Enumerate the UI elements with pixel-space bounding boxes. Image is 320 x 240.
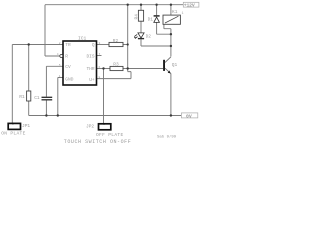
LED D2	[135, 33, 145, 39]
wire collector node	[170, 34, 172, 56]
node dot LED-collector	[170, 45, 172, 47]
transistor Q1	[163, 57, 177, 74]
svg-text:D1: D1	[148, 16, 154, 22]
node dot TR-R1	[28, 43, 30, 45]
svg-text:GND: GND	[65, 77, 73, 83]
wire R1 top	[28, 45, 30, 92]
node dot rail-R4	[140, 3, 142, 5]
svg-text:IC1: IC1	[78, 36, 87, 42]
wire base from node B	[128, 68, 163, 70]
wire LED bottom	[141, 39, 171, 46]
wire emitter to ground	[170, 74, 172, 116]
node dot gnd-emitter	[170, 114, 172, 116]
svg-text:DIS: DIS	[86, 53, 94, 59]
wire relay top pin	[170, 5, 172, 15]
svg-text:Q1: Q1	[172, 62, 178, 68]
svg-text:ON PLATE: ON PLATE	[1, 130, 25, 136]
svg-text:7: 7	[99, 53, 101, 56]
svg-text:OFF PLATE: OFF PLATE	[96, 132, 124, 138]
wire C1 bottom	[45, 100, 47, 115]
supply tag +12V	[183, 2, 199, 8]
svg-text:6: 6	[99, 66, 101, 69]
svg-text:2: 2	[59, 42, 61, 45]
node dot rail-D1	[155, 3, 157, 5]
svg-text:D2: D2	[146, 33, 152, 39]
relay K1 coil	[163, 15, 180, 24]
svg-text:+12V: +12V	[184, 2, 195, 8]
wire GND pin1	[58, 78, 63, 116]
wire relay bottom pin	[164, 24, 171, 34]
node dot R2-feed	[127, 43, 129, 45]
svg-text:4: 4	[57, 53, 59, 56]
wire U+ pin8 jog	[97, 69, 132, 79]
connector JP2	[86, 123, 111, 130]
node dot rail-relay	[170, 3, 172, 5]
svg-text:1: 1	[59, 75, 61, 78]
svg-text:TOUCH SWITCH ON-OFF: TOUCH SWITCH ON-OFF	[64, 139, 131, 145]
svg-text:R4: R4	[133, 14, 139, 20]
resistor R1	[27, 91, 31, 101]
resistor R4	[138, 10, 143, 21]
svg-text:R1: R1	[19, 94, 25, 100]
wire R3 right	[123, 68, 128, 70]
svg-text:R2: R2	[113, 38, 119, 44]
wire CV pin5	[46, 66, 63, 97]
node dot gnd-IC	[57, 114, 59, 116]
pin DIS stub	[97, 55, 102, 57]
wire D1 column	[157, 5, 171, 35]
resistor R2	[109, 42, 123, 46]
wire Q pin3 row	[97, 44, 110, 46]
svg-text:3: 3	[99, 42, 101, 45]
connector JP1	[8, 123, 30, 129]
svg-text:Sab 9/99: Sab 9/99	[157, 135, 177, 140]
svg-text:JP1: JP1	[22, 123, 30, 129]
svg-text:1: 1	[182, 11, 184, 15]
node B base-feed	[127, 67, 129, 69]
svg-text:R: R	[65, 53, 68, 59]
wire ground rail	[29, 115, 182, 117]
wire +12V vertical feed	[127, 5, 129, 69]
wire +12V top rail	[45, 4, 183, 6]
node dot D1-collector	[170, 33, 172, 35]
resistor R3	[110, 66, 123, 70]
node dot gnd-C1	[45, 114, 47, 116]
op-amp U1 : IC1 555 box	[63, 41, 97, 85]
svg-text:TR: TR	[65, 42, 71, 48]
capacitor C1	[42, 97, 53, 100]
diode D1	[154, 16, 160, 23]
wire TR pin2 row	[12, 44, 63, 46]
svg-text:0V: 0V	[186, 113, 192, 119]
svg-text:5: 5	[59, 64, 61, 67]
wire ON plate drop	[11, 45, 13, 123]
svg-text:R3: R3	[113, 62, 119, 68]
wire OFF plate drop	[103, 69, 105, 124]
svg-text:K1: K1	[172, 9, 178, 15]
svg-text:U+: U+	[89, 77, 95, 83]
wire R2 right	[123, 44, 128, 46]
wire R4 column	[140, 5, 142, 33]
node A THR-JP2	[102, 67, 104, 69]
supply tag 0V	[181, 113, 197, 120]
IC1 reset bubble	[60, 55, 63, 58]
wire THR pin6 row	[97, 68, 111, 70]
svg-text:THR: THR	[86, 66, 94, 72]
svg-text:JP2: JP2	[86, 124, 94, 130]
svg-text:C1: C1	[34, 95, 40, 101]
wire reset pin4 to rail	[45, 5, 60, 56]
svg-text:8: 8	[99, 76, 101, 79]
svg-text:CV: CV	[65, 64, 71, 70]
node dot rail-feed	[127, 3, 129, 5]
wire R1 bottom	[28, 101, 30, 116]
svg-text:Q: Q	[92, 42, 95, 48]
